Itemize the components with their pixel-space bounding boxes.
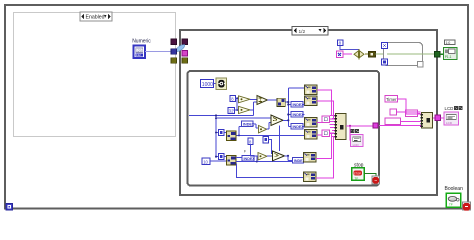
svg-text:INDEX: INDEX [293, 103, 305, 107]
svg-text:Enabled: Enabled [86, 15, 105, 21]
svg-text:1000: 1000 [202, 82, 213, 88]
svg-text:132: 132 [136, 53, 141, 57]
svg-text:P1.1: P1.1 [445, 55, 452, 59]
svg-text:LCD: LCD [446, 121, 453, 125]
svg-text:Timer: Timer [386, 97, 397, 102]
svg-text:10: 10 [203, 159, 208, 164]
svg-text:1:0: 1:0 [446, 41, 451, 45]
svg-text:INDEX: INDEX [293, 125, 305, 129]
svg-text:Numeric: Numeric [132, 39, 151, 45]
svg-text:F: F [244, 150, 246, 154]
svg-text:LCD: LCD [445, 106, 454, 111]
svg-text:TF: TF [449, 203, 453, 207]
svg-text:TF: TF [355, 176, 359, 180]
svg-text:STOP: STOP [354, 172, 361, 176]
svg-text:INDEX: INDEX [293, 113, 305, 117]
svg-text:LCD: LCD [353, 143, 360, 147]
svg-text:Boolean: Boolean [445, 186, 464, 192]
svg-text:1/2: 1/2 [299, 29, 306, 35]
svg-text:INDEX: INDEX [243, 122, 255, 126]
svg-text:INDEX: INDEX [244, 157, 256, 161]
svg-text:32: 32 [229, 109, 234, 114]
